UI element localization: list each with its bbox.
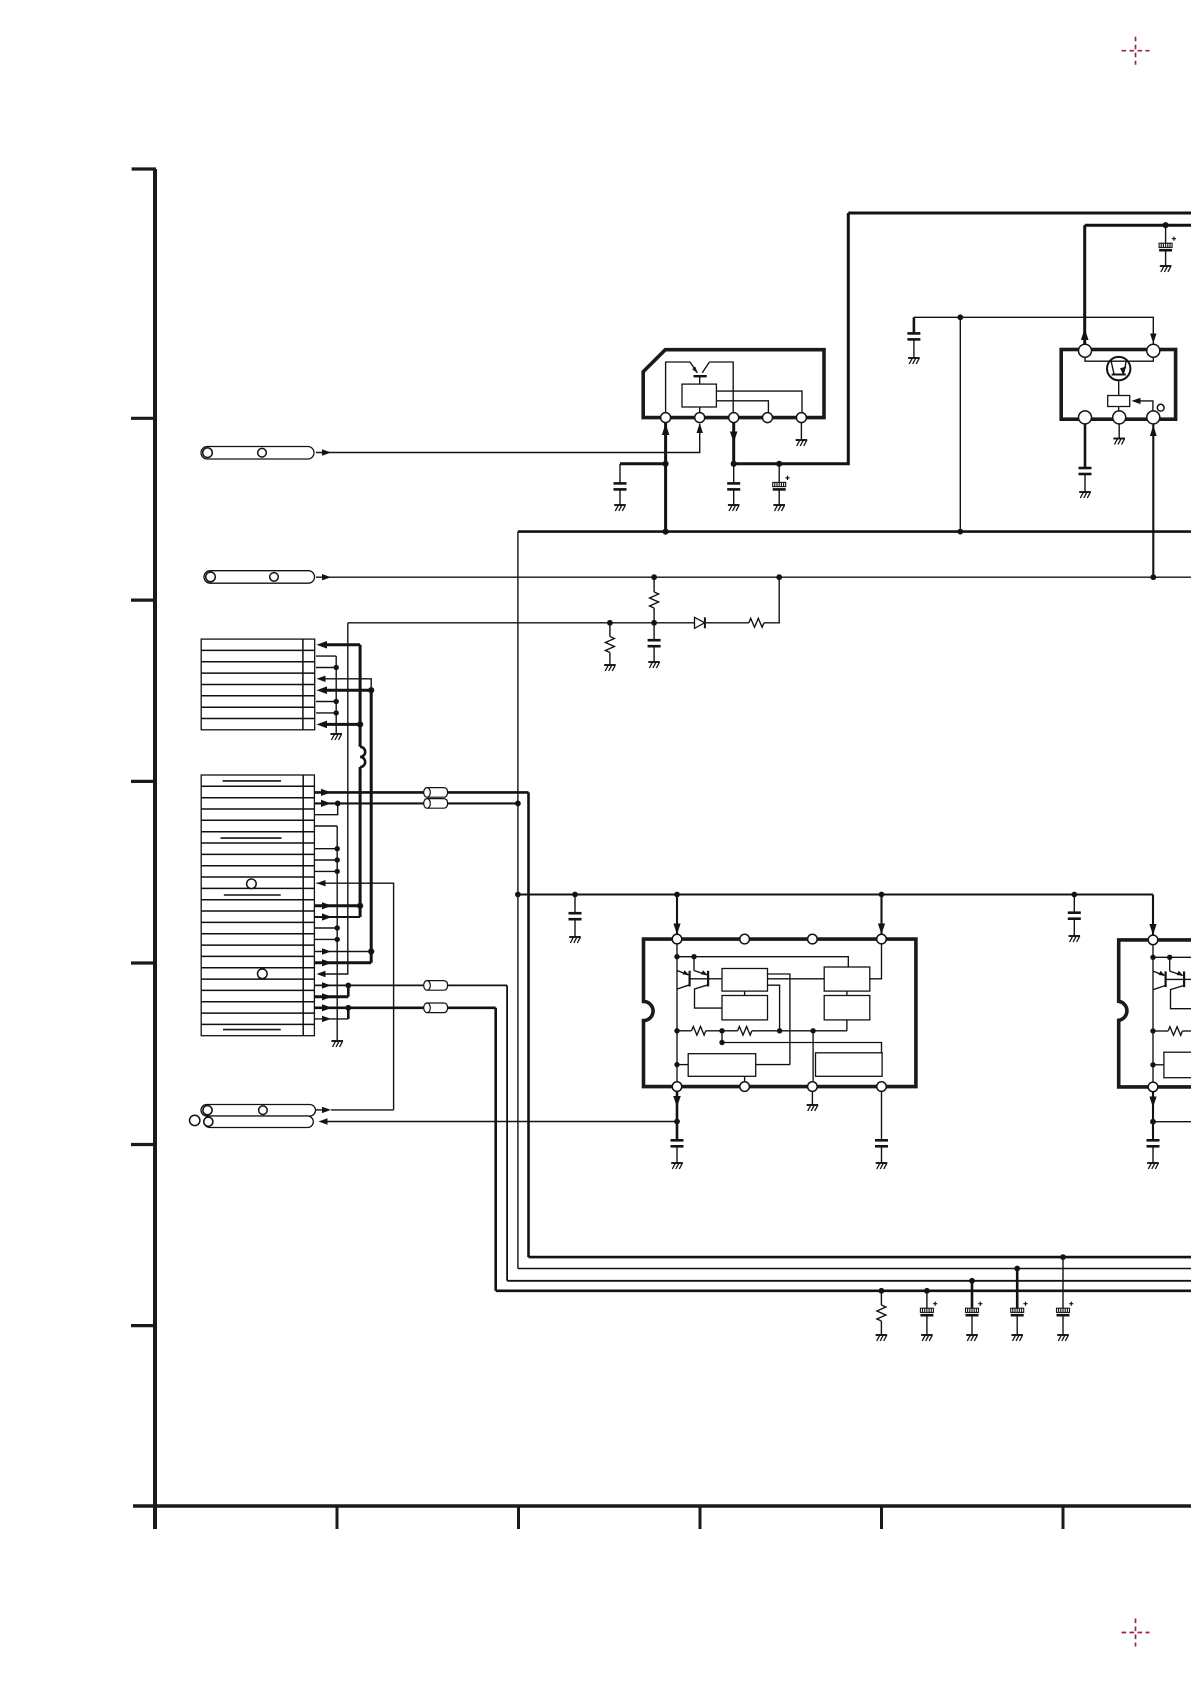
line1042 to box B6 <box>722 1043 882 1053</box>
B1 out down to rail2 <box>768 985 780 1031</box>
IC3 top pin 2 <box>740 934 750 944</box>
logic box B1 in IC3 <box>722 969 768 992</box>
rail top right <box>848 212 1191 215</box>
ground C14 <box>1011 1335 1023 1341</box>
CN4 row10 wire from CN5 <box>317 883 394 1110</box>
CN3 row4/5 rail down to CN4 rows16/17 <box>370 690 373 963</box>
bottom run netR <box>507 1280 1191 1282</box>
wire IC2 pin3 to line577 <box>1152 424 1154 577</box>
ferrite bead FB1 <box>424 788 448 798</box>
B3 right to pin4 internal <box>870 944 882 979</box>
capacitor C9t tap x1074 <box>1073 895 1075 913</box>
page border left rule <box>153 169 157 1529</box>
junction netQ 894 line <box>515 892 521 898</box>
IC4 top link line <box>1153 956 1191 958</box>
capacitor C8 on line894 tap x575 <box>574 895 576 914</box>
diode D1 <box>695 617 705 628</box>
arrow out of IC1 pin3 <box>730 432 738 443</box>
arrow into CN5B <box>319 1118 328 1124</box>
wire CN1 to IC1 pin2 <box>316 424 700 453</box>
ferrite bead FB4 <box>424 1003 448 1013</box>
ground C4 <box>1160 266 1172 272</box>
junction R4 tap <box>607 620 613 626</box>
wire CN5B from IC3 pin1 net <box>327 1121 678 1123</box>
CN3 row1 wire <box>325 643 360 646</box>
+B bus <box>518 530 1191 533</box>
CN4 row2 wire netP <box>315 791 529 794</box>
ground C7 <box>648 662 660 668</box>
capacitor C3 polarized <box>778 464 780 483</box>
regulator box in IC1 <box>682 384 716 407</box>
logic box B2 in IC3 <box>722 996 768 1020</box>
wire riser to IC2 pin1 <box>1083 225 1086 345</box>
wire CN5A stub <box>316 1109 323 1111</box>
ground C15 <box>1057 1335 1069 1341</box>
IC3 body <box>644 939 916 1087</box>
CN4 row13 wire <box>315 916 360 918</box>
wire riser 317 to bus <box>959 317 961 531</box>
resistor R7 <box>880 1291 882 1305</box>
arrow into rail from IC2 pin1 <box>1081 328 1089 340</box>
arrow into IC1 pin1 <box>662 424 670 436</box>
ground CN3 chain <box>330 734 342 740</box>
no-connect circle in IC2 <box>1157 404 1164 411</box>
CN4 row3 wire netQ <box>315 802 518 804</box>
bottom tick 4 <box>880 1506 883 1529</box>
transistor Q1 in IC1 <box>690 362 697 373</box>
transistor Q2 in IC2 <box>1107 357 1130 380</box>
junction pin1/cap stub <box>663 461 669 467</box>
CN4 row7 stub <box>315 848 337 850</box>
arrow into IC1 pin2 <box>697 423 703 433</box>
resistor R3 <box>749 618 764 627</box>
resistor R4 <box>609 623 611 637</box>
IC3 rail dot a <box>674 954 679 959</box>
bottom run netS <box>496 1290 1191 1293</box>
logic box B3 in IC3 <box>824 967 870 991</box>
ground C2 <box>728 505 740 511</box>
capacitor C5 <box>1084 424 1087 468</box>
border tick top <box>132 167 156 170</box>
capacitor C13 polarized <box>971 1281 974 1308</box>
wire IC2 pin2 feed line <box>914 317 1153 344</box>
junction rows19/20 <box>345 983 351 989</box>
wire pin3 net to riser <box>734 213 849 464</box>
junction R2 bottom <box>651 620 657 626</box>
wire IC3 pin1 feed <box>676 895 678 935</box>
junction row4 tie <box>335 801 341 807</box>
B1-B2 link <box>744 991 746 995</box>
junction C8 tap <box>572 892 578 898</box>
R8 lead with arrow <box>1132 398 1141 404</box>
wire IC1 pin3 down <box>732 423 735 464</box>
junction R7 tap <box>879 1288 885 1294</box>
junction CN4 row16 <box>368 948 374 954</box>
arrow CN5A out <box>322 1107 331 1113</box>
junction C14 tap <box>1014 1266 1020 1272</box>
Q2 to resistor <box>1118 380 1120 395</box>
logic box B5 in IC3 <box>688 1054 756 1077</box>
junction riser on bus <box>957 529 963 535</box>
bottom tick 5 <box>1062 1506 1065 1529</box>
junction row5 <box>368 687 374 693</box>
arrow CN2 out <box>322 574 331 580</box>
bottom tick 1 <box>336 1506 339 1529</box>
ground IC1 pin5 <box>796 440 808 446</box>
registration cross top <box>1122 37 1150 65</box>
page border bottom rule <box>133 1504 1191 1508</box>
junction pin3 net on line577 <box>1150 574 1156 580</box>
IC4 link dot b <box>1167 955 1172 960</box>
transistor pair Q4 in IC4 <box>1153 957 1191 1008</box>
netS riser x496 <box>494 1008 497 1291</box>
IC3 bottom pin1 net <box>676 1091 679 1140</box>
wire CN5A to row10 riser <box>331 1109 394 1111</box>
wire line894 corner to IC4 pin <box>1152 895 1154 935</box>
CN3 row7 stub <box>316 712 336 714</box>
wire line622 <box>348 622 695 624</box>
ground C3 <box>773 505 785 511</box>
IC1 pin 1 <box>661 413 671 423</box>
transistor pair Q3 in IC3 <box>677 957 722 1008</box>
IC3 bottom pin 4 <box>877 1082 887 1092</box>
inductor L1 <box>360 747 365 767</box>
CN4 row14 stub <box>315 927 337 929</box>
capacitor C1 <box>619 464 621 484</box>
connector CN5 pill B <box>204 1116 313 1128</box>
arrow CN1 out <box>322 449 331 455</box>
IC4 top pin <box>1148 935 1158 945</box>
B1 out right corner <box>768 974 790 1065</box>
junction 317 line riser <box>957 314 963 320</box>
IC4 bottom pin net <box>1152 1092 1154 1141</box>
IC2 top pin 2 <box>1147 344 1160 357</box>
rail2 drop to line1042 <box>721 1031 723 1043</box>
B4 down to rail2 <box>846 1020 848 1031</box>
capacitor C4 polarized <box>1165 225 1167 243</box>
IC4 resistor rail <box>1153 1030 1168 1032</box>
CN4 key row11 <box>224 894 281 896</box>
B7 left link <box>1153 1064 1164 1066</box>
capacitor C15 polarized <box>1062 1257 1064 1308</box>
connector CN1 <box>201 447 314 460</box>
CN4 row4 stub <box>315 803 338 814</box>
IC2 top pin 1 <box>1079 344 1092 357</box>
CN3 row6 stub <box>316 701 336 703</box>
IC1 internal left wire <box>666 362 690 413</box>
junction C3 tap <box>776 461 782 467</box>
arrow into IC2 pin3 <box>1150 425 1157 436</box>
IC2 internal top link <box>1085 356 1153 361</box>
CN3 row5 wire <box>325 689 371 692</box>
CN4 row15 stub <box>315 938 337 940</box>
arrow into CN4 row18 <box>317 971 326 977</box>
IC3 internal rail <box>676 944 678 1082</box>
CN4 circle row10 <box>247 879 257 889</box>
junction diode branch top <box>776 574 782 580</box>
junction R2 top <box>651 574 657 580</box>
capacitor C12 polarized <box>926 1291 928 1308</box>
ferrite bead FB2 <box>424 799 448 809</box>
netP riser x528 <box>527 792 530 1257</box>
ground C12 <box>921 1335 933 1341</box>
ground C11 <box>1147 1163 1159 1169</box>
IC3 resistor rail <box>677 1030 692 1032</box>
ground C5 <box>1079 492 1091 498</box>
IC1 pin 3 <box>729 413 739 423</box>
junction C13 tap <box>969 1278 975 1284</box>
CN4 row19 wire <box>315 984 507 986</box>
registration cross bottom <box>1122 1619 1150 1647</box>
junction C4 tap <box>1163 222 1169 228</box>
IC3 top pin 3 <box>808 934 818 944</box>
ground CN4 chain <box>331 1041 343 1047</box>
rail2 drop to bottom pin3 <box>812 1031 814 1082</box>
junction C12 tap <box>924 1288 930 1294</box>
CN4 key row1 <box>223 780 282 782</box>
IC2 bottom pin 1 <box>1079 411 1092 424</box>
IC3 bottom pin 1 <box>672 1082 682 1092</box>
logic box B7 in IC4 <box>1164 1052 1191 1078</box>
connector CN3 body <box>201 639 315 730</box>
IC4 bottom pin <box>1148 1082 1158 1092</box>
CN4 row22 wire <box>315 1018 348 1020</box>
IC3 top link line <box>677 957 848 967</box>
CN4 row21 wire netS <box>315 1006 496 1009</box>
wire CN2 line577 <box>316 576 1191 578</box>
resistor R2 <box>653 577 655 592</box>
ground C9 <box>671 1163 683 1169</box>
CN4 row16 wire <box>315 951 371 953</box>
IC3 top pin 4 <box>877 934 887 944</box>
IC1 pin 2 <box>695 413 705 423</box>
IC1 box out to pin4 <box>716 401 768 413</box>
border tick 6 <box>131 1143 155 1146</box>
border tick 4 <box>131 780 155 783</box>
capacitor C10 <box>881 1091 883 1140</box>
IC1 box to pin2 <box>699 407 701 413</box>
bottom run netQ <box>518 1268 1191 1270</box>
ground C1 <box>614 505 626 511</box>
CN4 row9 stub <box>315 870 337 872</box>
IC1 pin5 ground stub <box>800 423 802 440</box>
IC1 internal right wire <box>709 362 733 413</box>
arrow into IC2 pin2 <box>1150 334 1156 344</box>
connector CN5 pill A <box>201 1105 316 1117</box>
resistor R8 in IC2 <box>1108 396 1130 407</box>
CN4 key row6 <box>221 837 282 839</box>
rows19/20 tie <box>347 985 350 996</box>
junction pin3 net <box>731 461 737 467</box>
logic box B4 in IC3 <box>824 996 870 1020</box>
junction netQ row3 line <box>515 801 521 807</box>
IC4 internal rail <box>1152 945 1154 1082</box>
circle CN5 extra pin <box>190 1115 200 1125</box>
B5 to bottom pin2 <box>744 1076 746 1082</box>
capacitor C14 polarized <box>1016 1269 1019 1309</box>
wire diode to R3 <box>705 622 749 624</box>
ground C9t <box>1069 936 1081 942</box>
CN4 row12 wire <box>315 904 360 907</box>
IC3 top pin 1 <box>672 934 682 944</box>
rail L1 down to CN4 rows12/13 <box>359 767 362 917</box>
connector CN4 body <box>201 775 314 1036</box>
IC2 bottom pin 3 <box>1147 411 1160 424</box>
bottom run netP <box>529 1256 1191 1259</box>
wire IC4 pin net right <box>1153 1121 1191 1123</box>
connector CN2 <box>204 571 315 584</box>
B5 left link <box>677 1064 688 1066</box>
ground C8 <box>569 937 581 943</box>
IC3 bottom pin 3 <box>808 1082 818 1092</box>
IC1 body <box>643 350 824 418</box>
IC1 pin 4 <box>763 413 773 423</box>
capacitor C11 <box>1147 1140 1160 1146</box>
R8 to bottom pin <box>1118 407 1120 411</box>
IC1 pin 5 <box>796 413 806 423</box>
IC4 rail dot a <box>1150 955 1155 960</box>
rail2 dots <box>674 1028 679 1033</box>
border tick 3 <box>131 598 155 601</box>
CN3 ground chain <box>335 656 337 734</box>
CN3 row3 stub <box>316 667 336 669</box>
logic box B6 in IC3 <box>816 1053 883 1077</box>
wire IC1 pin1 to +B bus <box>664 423 667 532</box>
IC2 bottom pin2 ground <box>1118 424 1120 439</box>
rows21/22 tie <box>347 1008 350 1019</box>
wire line894 <box>518 893 1153 895</box>
bottom tick 3 <box>699 1506 702 1529</box>
IC3 bottom pin 2 <box>740 1082 750 1092</box>
junction C15 tap <box>1060 1254 1066 1260</box>
wire line622 to CN4 row18 <box>325 623 348 974</box>
IC2 bottom pin 2 <box>1113 411 1126 424</box>
junction pin1 net on bus <box>663 529 669 535</box>
junction row8 <box>357 721 363 727</box>
CN4 row5 ground stub <box>315 825 337 827</box>
wire IC3 pin4 feed <box>880 895 882 935</box>
IC3 bottom pin3 ground <box>811 1091 813 1105</box>
B1 out to B3 <box>768 978 825 980</box>
IC2 body <box>1061 350 1175 420</box>
CN3 row2 ground stub <box>316 655 336 657</box>
ground C13 <box>966 1335 978 1341</box>
CN4 row20 wire <box>315 995 348 998</box>
capacitor C2 <box>733 464 735 484</box>
IC1 box out to pin5 <box>716 391 802 413</box>
capacitor C9 <box>671 1140 684 1146</box>
B5 right link <box>756 1064 790 1066</box>
ground C6 <box>908 358 920 364</box>
ground R4 <box>604 665 616 671</box>
border tick 5 <box>131 961 155 964</box>
B3-B4 link <box>846 991 848 995</box>
junction row12 <box>357 903 363 909</box>
wire R3 to riser <box>764 577 779 623</box>
IC3 link dot b <box>691 954 696 959</box>
ground R7 <box>876 1335 888 1341</box>
IC4 body <box>1119 940 1191 1087</box>
junction rows21/22 <box>345 1005 351 1011</box>
rail 2 right <box>1085 224 1191 227</box>
CN4 key row23 <box>223 1029 281 1031</box>
ground C10 <box>876 1163 888 1169</box>
ferrite bead FB3 <box>424 981 448 991</box>
netR riser x507 <box>506 985 508 1280</box>
CN3 row4 wire <box>325 679 371 690</box>
CN4 row8 stub <box>315 859 337 861</box>
CN4 circle row18 <box>258 969 268 979</box>
net Q riser x518 <box>517 532 519 1269</box>
CN4 row17 wire <box>315 961 371 964</box>
bottom tick 2 <box>517 1506 520 1529</box>
CN4 ground chain <box>336 826 338 1041</box>
border tick 2 <box>131 417 155 420</box>
capacitor C6 <box>913 317 916 333</box>
wire cap stub to pin1 net <box>620 462 666 465</box>
border tick 7 <box>131 1324 155 1327</box>
capacitor C7 <box>653 623 655 640</box>
CN3 row1/8 rail <box>359 645 362 747</box>
CN3 row8 wire <box>325 723 360 726</box>
